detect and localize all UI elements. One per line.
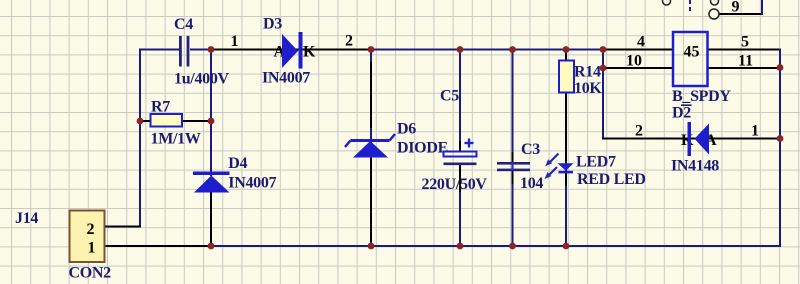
node R7 left (140,121) [137, 118, 144, 125]
wire LED7 to bottom bus [565, 186, 567, 246]
svg-text:45: 45 [684, 44, 700, 61]
LED LED7 [545, 154, 574, 180]
capacitor C3 [497, 162, 530, 171]
svg-text:C4: C4 [174, 16, 193, 33]
node bottom x512 [509, 243, 516, 250]
wire R14 bottom to LED7 [565, 92, 567, 186]
wire pin 4 [603, 49, 673, 51]
node above C5 (460,49.5) [457, 46, 464, 53]
wire vertical at x371 (D6 branch) [370, 50, 372, 247]
node above R14 (566,49.5) [563, 46, 570, 53]
svg-text:C5: C5 [440, 88, 459, 105]
wire C4 right plate to node 1 [190, 49, 212, 51]
label D2 with overline [672, 105, 692, 122]
node at C4 right (211,49.5) [208, 46, 215, 53]
resistor R14 [559, 61, 574, 93]
diode D4 [193, 172, 230, 193]
wire vertical at x512 above C3 [512, 50, 514, 153]
wire pin 11 [708, 67, 780, 69]
resistor R7 [151, 114, 183, 127]
wire top bus middle [371, 49, 604, 51]
svg-text:RED LED: RED LED [577, 171, 646, 188]
wire node 1 through D3 to node 2 (black pins) [211, 49, 371, 51]
svg-text:R14: R14 [574, 64, 601, 81]
node bottom x566 [563, 243, 570, 250]
wire top-right vertical [761, 0, 763, 15]
wire vertical at x211 upper (D4 branch) [210, 50, 212, 177]
svg-text:K: K [303, 44, 316, 61]
diode D3 [282, 32, 303, 69]
wire pin 10 [603, 67, 673, 69]
svg-text:9: 9 [732, 0, 740, 16]
pin segment above D6 [370, 62, 372, 128]
wire right vertical [779, 49, 781, 248]
node at x603 pin10 (603,68) [600, 65, 607, 72]
wire pin 1 of D2 [709, 138, 780, 140]
pin above C5 plate [459, 141, 461, 152]
wire overlay at x460 over 220U/50V text [459, 174, 461, 191]
capacitor C5 (electrolytic) [444, 139, 477, 164]
node bottom x211 [208, 243, 215, 250]
svg-text:C3: C3 [521, 141, 540, 158]
svg-text:104: 104 [520, 175, 543, 192]
svg-text:D2: D2 [672, 105, 691, 122]
svg-text:J14: J14 [15, 210, 38, 227]
svg-text:5: 5 [741, 34, 749, 51]
wire overlay at x460 over C5 text [459, 86, 461, 102]
svg-text:1: 1 [231, 33, 239, 50]
svg-text:R7: R7 [151, 99, 170, 116]
svg-text:IN4007: IN4007 [262, 70, 310, 87]
wire overlay at x211 over 1u/400V text [210, 68, 212, 86]
wire J14 pin 1 [104, 245, 211, 247]
component B_SPDY box [673, 32, 708, 86]
wire R7 left stub [140, 120, 151, 122]
wire vertical at x211 lower (D4 to bus) [210, 190, 212, 246]
svg-text:1M/1W: 1M/1W [151, 131, 201, 148]
node right pin11 (780,67.5) [777, 64, 784, 71]
wire vertical at x460 below C5 [459, 192, 461, 246]
svg-text:IN4007: IN4007 [228, 175, 276, 192]
wire vertical at x603 [602, 49, 604, 140]
pin below C3 plate [512, 171, 514, 184]
svg-text:CON2: CON2 [69, 265, 112, 282]
node bottom x371 [368, 243, 375, 250]
node above C3 (512,49.5) [509, 46, 516, 53]
wire top-right horizontal at pin 9 [719, 13, 762, 15]
dashed line top [689, 0, 691, 14]
connector circle pin 9 [709, 9, 719, 19]
pin above C3 plate [512, 152, 514, 162]
svg-text:DIODE: DIODE [397, 140, 448, 157]
wire R14 top stub [565, 50, 567, 62]
svg-text:2: 2 [345, 33, 353, 50]
diode D2 [688, 122, 710, 156]
connector circle top 2 [711, 0, 719, 5]
capacitor C4 [179, 36, 189, 67]
wire vertical at x512 below C3 [512, 184, 514, 246]
zener diode D6 [345, 134, 395, 158]
svg-text:1u/400V: 1u/400V [174, 71, 230, 88]
wire pin 5 [708, 49, 780, 51]
svg-text:220U/50V: 220U/50V [422, 176, 488, 193]
svg-text:D4: D4 [228, 155, 247, 172]
svg-text:10: 10 [626, 53, 642, 70]
pin segment below D6 [370, 158, 372, 242]
svg-text:10K: 10K [574, 80, 602, 97]
wire bottom bus [211, 245, 781, 247]
wire vertical at x460 above C5 [459, 50, 461, 142]
wire top-left horizontal (C4 left) [139, 49, 180, 51]
svg-text:D6: D6 [397, 121, 416, 138]
connector J14 box [70, 211, 105, 263]
node R7 right (211,121) [208, 118, 215, 125]
wire pin 2 of D2 [602, 138, 710, 140]
wire left vertical [139, 49, 141, 228]
svg-text:LED7: LED7 [576, 154, 616, 171]
node at x603 top (603,49.5) [600, 46, 607, 53]
svg-text:1: 1 [751, 123, 759, 140]
node right pin1 (780,138.5) [777, 135, 784, 142]
svg-text:11: 11 [738, 53, 753, 70]
node at D3 right (371,49.5) [368, 46, 375, 53]
wire J14 pin 2 [104, 226, 141, 228]
svg-text:2: 2 [635, 123, 643, 140]
svg-text:4: 4 [637, 34, 645, 51]
svg-text:D3: D3 [263, 16, 282, 33]
svg-text:IN4148: IN4148 [671, 158, 719, 175]
connector circle top 1 [663, 0, 671, 5]
pin below C5 plate [459, 165, 461, 192]
node bottom x460 [457, 243, 464, 250]
wire R7 right stub [181, 120, 211, 122]
svg-text:2: 2 [87, 221, 95, 238]
svg-text:B_SPDY: B_SPDY [672, 88, 731, 105]
svg-text:1: 1 [88, 240, 96, 257]
